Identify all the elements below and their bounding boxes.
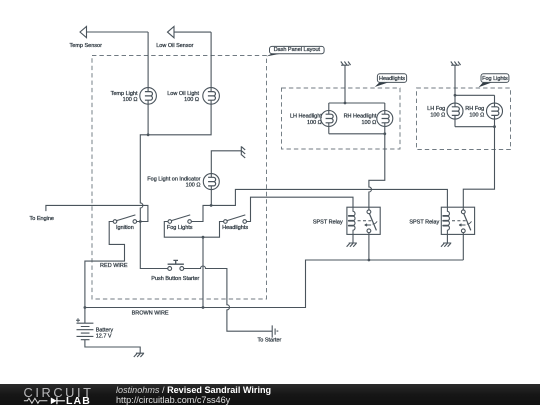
svg-text:100 Ω: 100 Ω: [123, 97, 138, 103]
ground chassis under K2 coil: [441, 243, 451, 247]
wire temp-sensor to L1: [147, 32, 149, 88]
battery V1 12.7 V: [76, 308, 140, 354]
svg-text:RED WIRE: RED WIRE: [100, 263, 128, 269]
wire push button to To Starter with hops: [184, 266, 273, 331]
lamp L4 LH Headlight: [321, 111, 337, 127]
svg-text:RH Headlight: RH Headlight: [344, 114, 377, 120]
footer title text: [116, 386, 271, 405]
switch SW3 Headlights: [224, 215, 247, 223]
svg-text:Battery: Battery: [96, 328, 114, 334]
svg-text:100 Ω: 100 Ω: [184, 97, 199, 103]
switch SW2 Fog Lights: [168, 215, 191, 223]
dashed box Dash Panel Layout: [92, 56, 267, 300]
svg-text:LH Fog: LH Fog: [427, 106, 445, 112]
callout label Headlights: [375, 74, 407, 87]
dashed box Headlights: [282, 88, 401, 149]
ground chassis under K1 coil: [347, 243, 357, 247]
wire RED WIRE ignition to battery: [85, 222, 125, 308]
flag Temp Sensor: [80, 26, 148, 37]
wire L3 bottom: [210, 190, 212, 206]
wire relay K2 coil to ground: [446, 234, 448, 242]
svg-text:RH Fog: RH Fog: [465, 106, 484, 112]
wire bus down to brown wire with hop over starter wire: [202, 237, 204, 307]
footer bar: [0, 384, 540, 405]
wire fog lamp loop: [455, 95, 495, 126]
wire relay K1 switch top to headlight loop: [369, 134, 385, 210]
svg-text:SPST Relay: SPST Relay: [409, 220, 439, 226]
svg-text:12.7 V: 12.7 V: [96, 333, 112, 339]
relay K1 SPST Relay: [347, 207, 380, 234]
wire switch bus fog/headlight to brown vertical: [164, 222, 223, 238]
svg-text:100 Ω: 100 Ω: [430, 113, 445, 119]
wire headlight lamp loop: [329, 103, 385, 134]
lamp L6 LH Fog: [447, 103, 463, 119]
svg-text:LAB: LAB: [66, 395, 91, 405]
wire L1 bottom to node: [147, 104, 149, 135]
wire BROWN WIRE battery to relay rail: [85, 260, 463, 308]
svg-text:100 Ω: 100 Ω: [307, 120, 322, 126]
lamp L7 RH Fog: [487, 103, 503, 119]
wire low-oil-sensor to L2: [210, 32, 212, 88]
svg-text:Headlights: Headlights: [222, 225, 248, 231]
svg-text:Push Button Starter: Push Button Starter: [151, 276, 199, 282]
relay K2 SPST Relay: [441, 207, 474, 234]
svg-text:To Engine: To Engine: [30, 216, 54, 222]
wire L3 top to chassis: [211, 151, 241, 174]
svg-text:100 Ω: 100 Ω: [361, 120, 376, 126]
flag Low Oil Sensor: [168, 27, 212, 38]
svg-text:Low Oil Light: Low Oil Light: [167, 91, 199, 97]
callout label Fog Lights: [479, 74, 509, 87]
lamp L2 Low Oil Light: [203, 88, 220, 105]
lamp L3 Fog Light on Indicator: [203, 174, 219, 190]
svg-text:SPST Relay: SPST Relay: [313, 220, 343, 226]
wire To Engine with hop over lamp bus: [46, 205, 148, 221]
svg-text:Ignition: Ignition: [116, 225, 134, 231]
ground chassis under battery: [134, 353, 144, 357]
svg-text:To Starter: To Starter: [257, 337, 281, 343]
terminal To Starter cell: [272, 325, 278, 337]
svg-text:Fog Lights: Fog Lights: [482, 76, 508, 82]
svg-text:100 Ω: 100 Ω: [469, 113, 484, 119]
svg-text:Low Oil Sensor: Low Oil Sensor: [156, 43, 193, 49]
ground chassis above headlights: [341, 62, 351, 66]
lamp L5 RH Headlight: [377, 111, 393, 127]
svg-text:BROWN WIRE: BROWN WIRE: [132, 310, 169, 316]
wire relay K2 switch top to fog loop: [463, 127, 494, 210]
svg-text:100 Ω: 100 Ω: [186, 183, 201, 189]
ground chassis above fog lights: [451, 62, 461, 66]
push button SW4 Push Button Starter: [168, 260, 184, 270]
svg-text:Fog Lights: Fog Lights: [167, 225, 193, 231]
wire chassis to headlight loop: [344, 66, 346, 104]
lamp L1 Temp Light: [140, 88, 157, 105]
wire relay K2 switch bottom to rail: [462, 233, 464, 261]
ground chassis right of L3: [241, 146, 245, 158]
wire relay K1 switch bottom to rail: [368, 233, 370, 261]
svg-text:Temp Sensor: Temp Sensor: [70, 43, 103, 49]
wire relay K1 coil to ground: [352, 234, 354, 242]
wire chassis to fog loop: [454, 66, 456, 96]
callout label Dash Panel Layout: [266, 46, 324, 56]
svg-text:Dash Panel Layout: Dash Panel Layout: [274, 47, 321, 53]
svg-text:Temp Light: Temp Light: [111, 91, 138, 97]
dashed box Fog Lights: [417, 88, 511, 150]
logo CircuitLab: [0, 384, 110, 405]
svg-text:LH Headlight: LH Headlight: [290, 114, 322, 120]
wire fog switch to indicator and relay K2 coil: [192, 189, 448, 221]
svg-text:Fog Light on Indicator: Fog Light on Indicator: [147, 177, 200, 183]
wire headlight switch to relay K1 coil: [247, 197, 354, 221]
switch SW1 Ignition: [113, 215, 136, 223]
svg-text:Headlights: Headlights: [379, 76, 405, 82]
wire L2 bottom / lamp bus down to push button: [140, 104, 211, 268]
